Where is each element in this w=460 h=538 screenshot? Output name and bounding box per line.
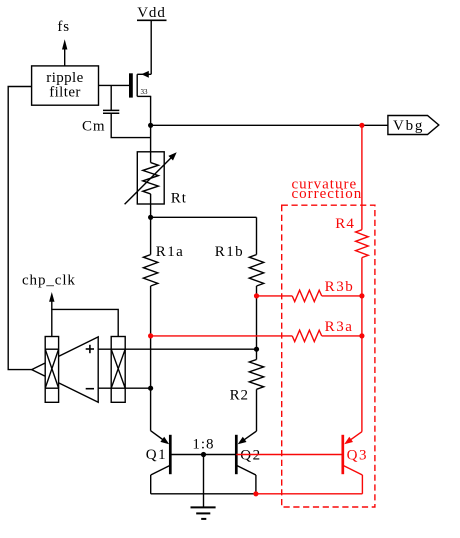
node: minus input junction on R1a branch: [148, 386, 153, 391]
transistor Q2: [236, 431, 261, 494]
svg-text:Vbg: Vbg: [393, 118, 424, 134]
wire: base line Q1-Q2: [170, 454, 236, 456]
wire: Rt bottom to R1a/R1b top node: [150, 194, 152, 255]
resistor R3b: [257, 279, 362, 302]
node: Vbg junction (red): [359, 123, 364, 128]
node: R3a right: [359, 333, 364, 338]
node: R3b right: [359, 293, 364, 298]
node: base junction to ground: [201, 452, 206, 457]
svg-text:R4: R4: [335, 216, 355, 232]
node: Q2 collector on rail (red): [253, 491, 258, 496]
svg-text:Vdd: Vdd: [137, 5, 166, 21]
svg-text:R3b: R3b: [325, 279, 355, 295]
Vdd power rail: [137, 5, 167, 74]
wire: top node horizontal: [151, 216, 257, 218]
capacitor Cm: [82, 85, 151, 137]
svg-text:R1b: R1b: [215, 244, 244, 260]
transistor Q1: [146, 431, 171, 494]
svg-text:Rt: Rt: [171, 191, 187, 207]
output port Vbg: [388, 116, 439, 135]
chp_clk clock line: [22, 272, 118, 336]
wire: R1b bottom down to R2: [256, 286, 258, 349]
resistor Rt (trimmable): [125, 152, 187, 207]
minus symbol of op-amp: [86, 388, 94, 390]
svg-text:Q3: Q3: [347, 448, 369, 464]
ground: [191, 507, 216, 519]
svg-text:1:8: 1:8: [192, 437, 214, 453]
svg-text:fs: fs: [57, 19, 70, 35]
chopper switch CH1 (input): [45, 337, 58, 403]
node: Rt bottom junction: [148, 215, 153, 220]
plus symbol of op-amp: [86, 345, 94, 353]
curvature correction dashed box: [282, 205, 375, 507]
wire: Vbg output line: [151, 124, 388, 126]
resistor R3a: [151, 319, 362, 342]
wire: down to R1b: [256, 217, 258, 254]
resistor R2: [230, 349, 264, 403]
fs output arrow: [57, 19, 70, 66]
wire: red branch R3b to R3a: [361, 296, 363, 336]
resistor R1b: [215, 244, 264, 286]
node: plus input junction R1b/R2: [254, 347, 259, 352]
wire: feedback from amp output to ripple filter: [8, 87, 32, 370]
svg-text:filter: filter: [49, 85, 81, 101]
svg-text:R1a: R1a: [156, 244, 184, 260]
svg-text:correction: correction: [292, 186, 363, 202]
pmos transistor M1: [131, 71, 151, 98]
node: bandgap output junction: [148, 123, 153, 128]
wire: red branch down to Q3 emitter: [361, 336, 363, 432]
svg-text:R2: R2: [230, 388, 249, 404]
wire: amp - input to R1a bottom node: [98, 387, 150, 389]
ripple filter block: [32, 66, 99, 105]
resistor R4: [335, 216, 368, 258]
svg-text:Q1: Q1: [146, 447, 168, 463]
wire: red bottom rail: [256, 493, 363, 495]
wire: R1a bottom down to Q1 emitter: [150, 286, 152, 431]
wire: drain of M1 down to Rt: [150, 96, 152, 162]
chopper switch CH2 (output): [111, 337, 125, 403]
label curvature correction: [292, 176, 363, 202]
transistor Q3: [343, 432, 368, 494]
wire: bottom rail black: [151, 493, 256, 495]
node: R3a left (on R1a branch): [148, 333, 153, 338]
wire: amp + input to R1b bottom node: [98, 348, 256, 350]
wire: R2 bottom to Q2 emitter: [256, 389, 258, 431]
svg-text:R3a: R3a: [325, 319, 354, 335]
node: R3b left (on R1b branch): [254, 293, 259, 298]
svg-text:Cm: Cm: [82, 119, 105, 135]
wire: base node down to ground: [203, 455, 205, 508]
op-amp A1: [32, 337, 99, 402]
svg-text:Q2: Q2: [240, 448, 262, 464]
svg-text:chp_clk: chp_clk: [22, 272, 76, 288]
wire: red base line Q2-Q3: [236, 454, 342, 456]
wire: R4 bottom to R3b node: [361, 258, 363, 296]
wire: gate of M1 to ripple filter: [99, 84, 130, 86]
svg-text:ripple: ripple: [46, 70, 83, 86]
wire: red branch from Vbg down to R4: [361, 125, 363, 229]
resistor R1a: [143, 244, 184, 286]
svg-text:33: 33: [141, 88, 149, 96]
